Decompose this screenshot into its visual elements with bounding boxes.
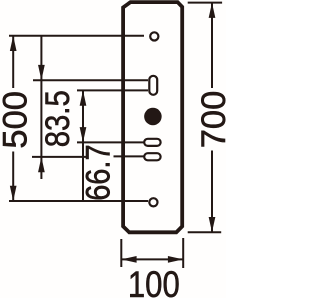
hole: upper vertical slot bbox=[149, 76, 157, 95]
extension line: 700 top bbox=[188, 2, 222, 4]
hole: center filled wiring hole bbox=[144, 108, 162, 126]
extension line: slot bottom arc center bbox=[77, 89, 148, 91]
svg-text:100: 100 bbox=[128, 265, 180, 298]
dimension 66.7: line with arrows bbox=[80, 90, 87, 201]
dimension 100: line with arrows bbox=[121, 256, 183, 263]
dimension 100: value text bbox=[128, 265, 180, 298]
svg-text:66.7: 66.7 bbox=[78, 144, 117, 200]
extension line: 700 bottom bbox=[188, 231, 222, 233]
dimension 700: value text bbox=[195, 91, 233, 149]
dimension 700: line with arrows bbox=[209, 3, 216, 233]
plate outline bbox=[123, 2, 182, 232]
hole: bottom small screw hole bbox=[149, 198, 157, 206]
svg-text:83.5: 83.5 bbox=[38, 90, 77, 147]
extension line: top hole center bbox=[9, 35, 144, 37]
dimension 500: value text bbox=[0, 91, 34, 149]
extension line: 100 left bbox=[120, 239, 122, 267]
dimension 83.5: value text bbox=[38, 90, 77, 147]
dimension 66.7: value text bbox=[78, 144, 117, 200]
extension line: slot B center bbox=[32, 155, 144, 158]
dimension 500: line with arrows bbox=[10, 36, 17, 201]
dimension 83.5: line with outside arrows bbox=[38, 36, 45, 179]
hole: lower horizontal slot B bbox=[144, 153, 160, 160]
hole: top small screw hole bbox=[150, 32, 158, 40]
svg-text:500: 500 bbox=[0, 91, 34, 149]
extension line: slot A center bbox=[77, 141, 144, 143]
extension line: bottom hole center bbox=[9, 200, 148, 202]
hole: upper horizontal slot A bbox=[144, 139, 160, 146]
extension line: slot top arc center bbox=[33, 79, 148, 81]
svg-text:700: 700 bbox=[195, 91, 226, 149]
extension line: 100 right bbox=[182, 238, 184, 268]
